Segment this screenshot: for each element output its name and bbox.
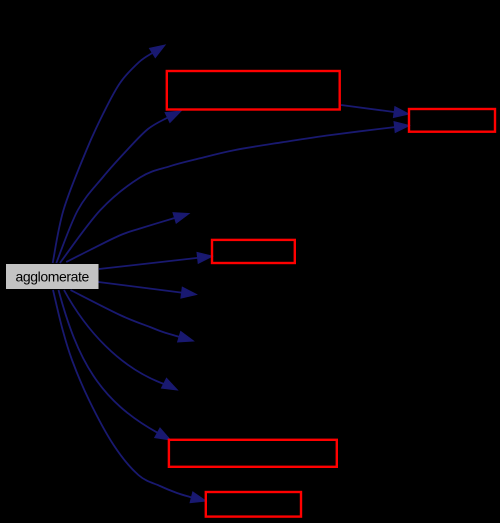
box5: truncated callee node (black label invisible) bbox=[206, 492, 301, 517]
box3: truncated callee node (black label invisible) bbox=[212, 240, 295, 263]
svg-text:agglomerate: agglomerate bbox=[15, 269, 89, 285]
edge: agglomerate -> box2 (long curve) bbox=[60, 122, 410, 263]
edge: agglomerate -> hidden callee node 4 bbox=[66, 213, 189, 262]
box4: truncated callee node (black label invisible) bbox=[169, 440, 337, 467]
edge: agglomerate -> hidden callee node 7 bbox=[71, 290, 194, 342]
edge: agglomerate -> hidden callee node 8 bbox=[64, 290, 177, 390]
box1: truncated callee node (black label invisible) bbox=[167, 71, 340, 110]
edge: agglomerate -> box3 bbox=[99, 252, 213, 269]
edge: box1 -> box2 bbox=[341, 105, 409, 118]
edge: agglomerate -> hidden callee node 1 (top) bbox=[53, 45, 165, 263]
edge: agglomerate -> box4 bbox=[59, 290, 171, 440]
node: agglomerate (root, grey filled) bbox=[6, 264, 99, 289]
edge: agglomerate -> box1 bbox=[56, 111, 181, 263]
edge: agglomerate -> hidden callee node 6 bbox=[98, 282, 196, 298]
box2: truncated callee node (black label invisible) bbox=[409, 109, 495, 132]
edge: agglomerate -> box5 bbox=[53, 290, 206, 503]
